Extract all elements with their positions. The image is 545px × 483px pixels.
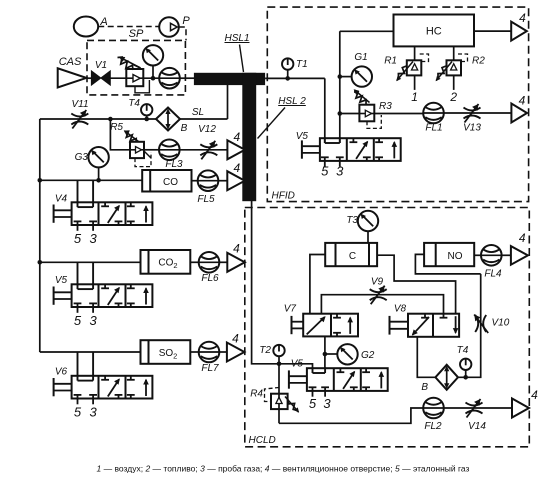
wire CAS to V1 (86, 77, 91, 79)
regulator R1 (air supply 1) (414, 46, 416, 60)
svg-text:3: 3 (336, 164, 344, 179)
svg-text:V1: V1 (95, 60, 107, 71)
wire V1 to pressure regulator (110, 77, 126, 79)
svg-text:FL4: FL4 (484, 269, 502, 280)
wire FL4 to vent (502, 254, 511, 256)
svg-text:5: 5 (309, 396, 317, 411)
wire NO to FL4 (474, 254, 481, 256)
gauge G2 (337, 344, 357, 364)
flow meter FL3 (159, 140, 180, 161)
thermometer T3 (gauge style) (358, 211, 378, 231)
thermometer T1 (282, 58, 293, 69)
svg-text:4: 4 (233, 161, 240, 175)
svg-text:V6: V6 (55, 367, 68, 378)
vent 4 after FL5 (227, 171, 245, 190)
valve V6 (5/3 way) (72, 376, 153, 399)
svg-text:5: 5 (74, 231, 82, 246)
svg-text:V11: V11 (71, 99, 88, 110)
valve V5 of HFID (5/3 way) (320, 138, 401, 161)
svg-text:B: B (421, 382, 428, 393)
svg-text:R5: R5 (110, 122, 123, 133)
vent 4 after V14 (512, 399, 529, 418)
svg-text:V9: V9 (371, 277, 384, 288)
wire sample bus line SL (40, 118, 156, 120)
span gas vessel CO2 (141, 250, 191, 274)
svg-text:5: 5 (321, 164, 329, 179)
wire CO row feed (40, 179, 142, 181)
wire main line down to HFID valve V5 (324, 78, 326, 143)
flow meter FL7 (199, 342, 220, 363)
svg-text:R2: R2 (472, 56, 485, 67)
span gas vessel SO2 (141, 340, 191, 364)
throttle V12 (200, 144, 217, 147)
svg-text:R1: R1 (384, 56, 397, 67)
wire R4 to FL2 line (279, 408, 423, 423)
vent 4 after FL7 (227, 343, 245, 362)
HSL1 leader line (240, 45, 244, 73)
throttle V10 (475, 315, 478, 332)
svg-text:V10: V10 (492, 318, 510, 329)
svg-text:V5: V5 (296, 131, 309, 142)
regulator R2 (fuel supply 2) (453, 46, 455, 60)
vent 4 after FL6 (227, 253, 245, 272)
svg-text:SP: SP (129, 28, 144, 40)
junction (151, 76, 156, 81)
svg-text:5: 5 (74, 313, 82, 328)
wire FL3 to V12 (180, 149, 228, 151)
wire R2 inlet stub (453, 75, 455, 90)
svg-text:HSL1: HSL1 (224, 33, 249, 44)
svg-text:V8: V8 (394, 304, 407, 315)
wire HC feed top (340, 30, 394, 32)
valve V7 (3/2 way) (303, 314, 358, 337)
vent 4 after V12 (227, 140, 245, 159)
svg-text:2: 2 (449, 90, 457, 104)
svg-text:T3: T3 (346, 215, 358, 226)
svg-text:CAS: CAS (59, 56, 82, 68)
svg-text:B: B (181, 123, 188, 134)
svg-text:CO: CO (163, 177, 178, 188)
svg-text:V12: V12 (198, 124, 216, 135)
wire R3 to FL1 (374, 113, 423, 115)
wire FL7 to vent (219, 351, 227, 353)
valve V5 (left, 5/3 way) (72, 284, 153, 307)
svg-text:1 — воздух; 2 — топливо; 3 — п: 1 — воздух; 2 — топливо; 3 — проба газа;… (97, 464, 470, 474)
svg-text:4: 4 (232, 332, 239, 346)
svg-text:G2: G2 (361, 350, 375, 361)
svg-text:HCLD: HCLD (249, 435, 276, 446)
svg-text:4: 4 (519, 11, 526, 25)
wire FL1 to V13 (444, 112, 512, 114)
vent 4 after FL4 (511, 246, 528, 265)
heated line HSL2 (black bar) (242, 73, 256, 201)
thermometer T4 (141, 104, 152, 115)
wire CO to FL5 (192, 180, 198, 182)
SP dashed enclosure (87, 40, 185, 95)
throttle V13 (464, 108, 481, 111)
heated line HSL1 (black bar) (194, 73, 265, 85)
filter B (156, 108, 180, 131)
wire FL2 to V14 (444, 407, 512, 409)
wire R5 to FL3 (144, 149, 159, 151)
inlet CAS (open triangle) (58, 68, 87, 87)
flow meter FL4 (481, 245, 502, 266)
wire CO2 to FL6 (190, 261, 198, 263)
svg-text:FL6: FL6 (201, 273, 219, 284)
svg-text:T2: T2 (259, 345, 271, 356)
regulator R5 (130, 142, 144, 158)
wire FL6 to vent (219, 261, 227, 263)
svg-text:FL3: FL3 (165, 159, 183, 170)
wire CO2 row feed (40, 261, 141, 263)
flow meter FL1 (423, 103, 444, 124)
wire T2 junction down to R4 (278, 364, 280, 424)
wire C right to valve V8 (377, 255, 456, 314)
wire R3 branch (340, 113, 360, 115)
throttle V14 (466, 403, 483, 406)
regulator R3 (359, 105, 374, 122)
wire A to P (dashed) (98, 26, 159, 28)
svg-text:T4: T4 (128, 98, 140, 109)
svg-text:FL7: FL7 (201, 363, 219, 374)
flow meter FL5 (198, 170, 219, 191)
pump P (159, 17, 179, 37)
thermometer T4 of HCLD (460, 359, 471, 370)
burner unit HC (394, 15, 475, 47)
svg-text:HC: HC (426, 26, 442, 38)
reactor NO (424, 243, 474, 266)
valve V8 (3/2 way) (408, 314, 459, 337)
svg-text:1: 1 (411, 90, 418, 104)
svg-text:3: 3 (89, 405, 97, 420)
svg-text:HFID: HFID (272, 191, 295, 202)
thermometer T2 (273, 345, 284, 356)
svg-text:SL: SL (192, 107, 204, 118)
wire SO2 row feed (40, 351, 141, 353)
junction to R5 branch (108, 117, 113, 122)
svg-text:T4: T4 (457, 345, 469, 356)
svg-text:HSL 2: HSL 2 (278, 96, 306, 107)
svg-text:4: 4 (233, 242, 240, 256)
wire SO2 to FL7 (190, 351, 198, 353)
throttle V11 (71, 114, 88, 117)
wire HSL1 to HFID main line (265, 77, 325, 79)
svg-text:V5: V5 (291, 359, 304, 370)
flow meter in SP (159, 68, 180, 89)
vessel A (oval) (74, 17, 98, 37)
svg-text:3: 3 (323, 396, 331, 411)
wire flow meter to HSL1 (180, 77, 195, 79)
svg-text:FL5: FL5 (197, 194, 215, 205)
regulator R4 (271, 394, 288, 409)
svg-text:4: 4 (519, 94, 526, 108)
gauge in SP (143, 45, 163, 65)
regulator pilot line (135, 80, 149, 93)
svg-text:5: 5 (74, 405, 82, 420)
wire R1 inlet stub (414, 75, 416, 90)
wire gauge stem (152, 66, 154, 79)
svg-text:V5: V5 (55, 275, 68, 286)
HCLD dashed enclosure (245, 208, 530, 447)
svg-text:C: C (349, 251, 356, 262)
wire V9 bridge (321, 295, 443, 314)
svg-text:NO: NO (448, 251, 463, 262)
valve V4 (5/3 way) (72, 202, 153, 225)
wire FL5 to vent (218, 180, 227, 182)
throttle V9 (370, 289, 387, 292)
gauge G1 (352, 66, 372, 86)
valve V5 of HCLD (5/3 way) (307, 368, 388, 391)
svg-text:FL1: FL1 (425, 123, 442, 134)
svg-text:3: 3 (89, 231, 97, 246)
filter B of HCLD (435, 365, 458, 390)
valve V1 (shutoff) (91, 71, 110, 85)
svg-text:3: 3 (89, 313, 97, 328)
svg-text:G3: G3 (75, 152, 89, 163)
wire sample line into HCLD (252, 200, 313, 369)
wire B to V10 riser (458, 274, 481, 377)
span gas vessel CO (142, 170, 191, 192)
svg-text:G1: G1 (354, 52, 367, 63)
svg-text:R4: R4 (250, 389, 263, 400)
svg-text:4: 4 (234, 130, 241, 144)
wire P down to SP box (dashed) (179, 27, 186, 40)
wire HC feed riser (339, 31, 341, 143)
R5 pilot line (dashed) (135, 152, 151, 167)
svg-text:T1: T1 (296, 59, 308, 70)
HSL2 leader line (258, 108, 286, 139)
svg-text:V4: V4 (55, 194, 68, 205)
flow meter FL2 (423, 398, 444, 419)
wire HC to vent (474, 30, 511, 32)
svg-text:4: 4 (531, 388, 538, 402)
svg-text:R3: R3 (379, 101, 392, 112)
wire R5 branch down (110, 119, 130, 150)
wire C left to valve V7 (310, 255, 325, 314)
vent 4 after V13 (511, 104, 527, 123)
wire regulator to flow meter (143, 77, 159, 79)
wire left supply bus (39, 119, 41, 352)
svg-text:4: 4 (519, 231, 526, 245)
vent 4 after HC (511, 22, 527, 41)
flow meter FL6 (199, 252, 220, 273)
svg-text:V7: V7 (284, 304, 297, 315)
wire V7 outlet down to HCLD valve V5 (324, 336, 326, 369)
wire V8 outlet to filter B (417, 337, 435, 378)
gauge G3 (88, 147, 108, 167)
converter C (325, 243, 377, 266)
svg-text:FL2: FL2 (424, 421, 442, 432)
svg-text:P: P (182, 15, 190, 27)
svg-text:V13: V13 (463, 123, 481, 134)
pressure regulator in SP (126, 69, 143, 86)
svg-text:V14: V14 (468, 421, 486, 432)
HFID dashed enclosure (267, 7, 528, 202)
wire V10 to NO reactor (415, 254, 480, 274)
R3 pilot line (dashed) (367, 115, 381, 128)
